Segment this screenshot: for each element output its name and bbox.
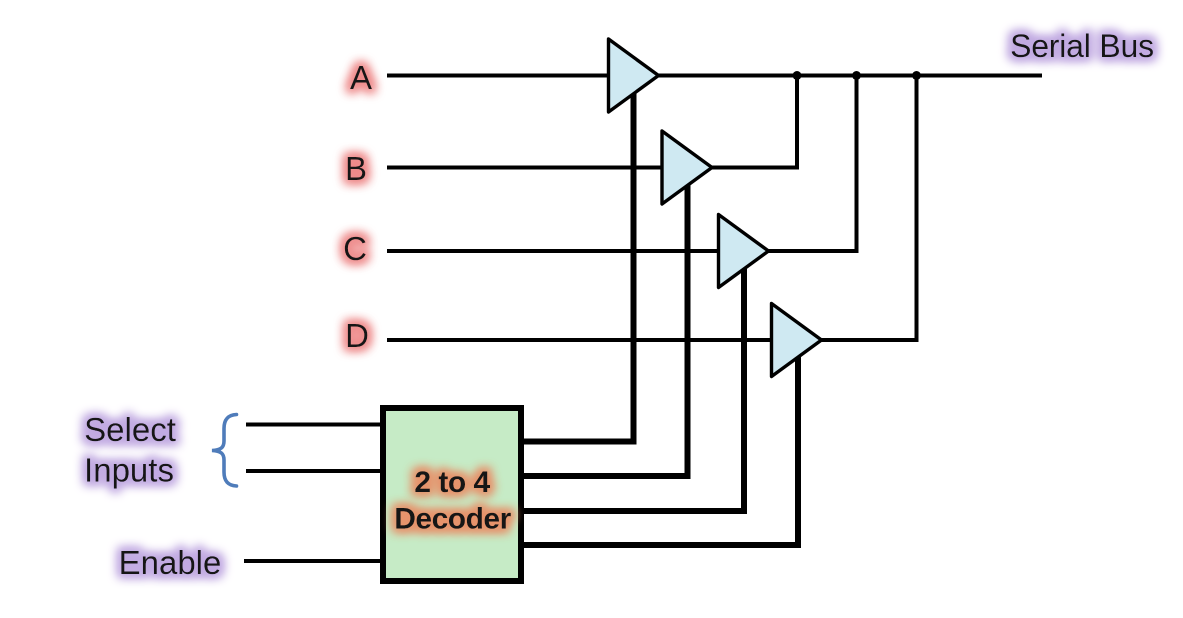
wire input C [387,249,721,253]
wire select input 0 [246,423,383,427]
wire buffer D output to bus [820,76,917,341]
svg-text:Decoder: Decoder [394,503,511,536]
wire serial bus [656,74,1042,78]
wire select input 1 [246,469,383,473]
svg-text:B: B [345,150,367,187]
wire input A [387,74,612,78]
wire buffer C output to bus [767,76,857,252]
tri-state buffer C [719,215,769,288]
junction bus-D [912,71,921,80]
wire decoder output 2 to buffer C enable [521,268,744,511]
tri-state buffer A [609,39,659,112]
svg-text:Select: Select [84,411,176,448]
decoder U1 box [383,408,521,581]
svg-text:Inputs: Inputs [84,452,174,489]
junction bus-B [793,71,802,80]
tri-state buffer B [662,131,712,204]
wire decoder output 3 to buffer D enable [521,357,798,545]
svg-text:C: C [343,230,367,267]
wire input B [387,166,665,170]
svg-text:Serial Bus: Serial Bus [1010,28,1154,64]
svg-text:D: D [345,317,369,354]
brace for select inputs [212,415,237,487]
wire input D [387,338,774,342]
svg-text:Enable: Enable [119,544,222,581]
wire buffer B output to bus [710,76,797,168]
svg-text:A: A [350,59,372,96]
tri-state buffer D [772,304,822,377]
wire enable input [244,559,383,563]
wire decoder output 1 to buffer B enable [521,185,688,476]
junction bus-C [852,71,861,80]
svg-text:2 to 4: 2 to 4 [414,466,490,499]
wire decoder output 0 to buffer A enable [521,93,634,442]
